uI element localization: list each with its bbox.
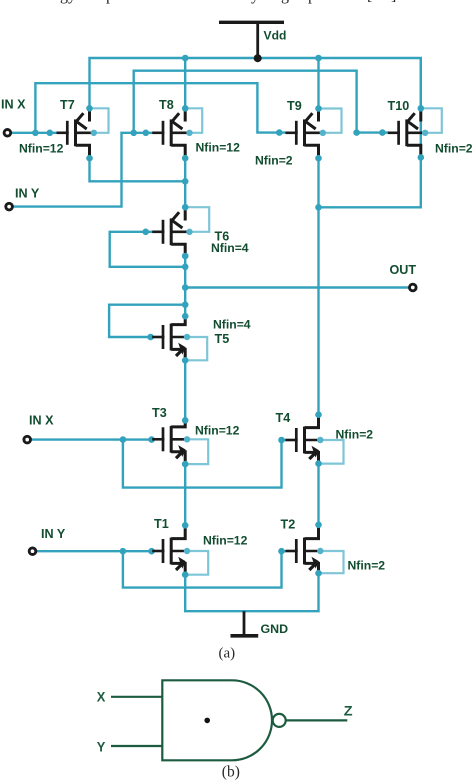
- svg-text:T9: T9: [287, 99, 302, 113]
- node T10 gate dot A: [353, 129, 360, 136]
- node Vdd-T8 junction: [182, 55, 189, 62]
- wire input X stub: [111, 696, 162, 698]
- wire output Z stub: [286, 719, 348, 721]
- wire T5 gate-drain loop: [109, 305, 185, 337]
- svg-text:T10: T10: [388, 99, 410, 113]
- svg-text:(b): (b): [222, 764, 240, 781]
- transistor T9: [319, 109, 342, 133]
- wire IN Y riser to T10 gate: [134, 71, 388, 133]
- node IN Y dot A: [120, 548, 127, 555]
- wire OUT: [185, 286, 409, 288]
- node T6 drain junction: [182, 264, 189, 271]
- node T6 diode junction: [142, 229, 149, 236]
- svg-text:Nfin=2: Nfin=2: [255, 154, 293, 168]
- wire IN X to T7 gate: [11, 132, 57, 134]
- wire IN Y to T8 gate: [13, 133, 153, 207]
- terminal IN X bottom: [24, 436, 31, 443]
- svg-text:Nfin=4: Nfin=4: [213, 318, 251, 332]
- wire T10 drain connector: [319, 158, 421, 207]
- node center dot: [204, 718, 210, 724]
- wire IN Y drop to T2 gate: [123, 551, 286, 587]
- svg-text:Y: Y: [97, 739, 106, 755]
- svg-text:T2: T2: [281, 518, 296, 532]
- svg-text:T7: T7: [60, 98, 75, 112]
- wire T4 to T2: [317, 464, 319, 525]
- node T2 gate dot: [278, 548, 285, 555]
- svg-text:Z: Z: [344, 703, 353, 719]
- node T8 gate dot A: [130, 130, 137, 137]
- wire T6 to T5 (OUT node): [184, 256, 186, 316]
- wire T7 drain to node: [90, 158, 186, 181]
- transistor T4: [319, 440, 344, 464]
- svg-text:Nfin=12: Nfin=12: [19, 142, 64, 156]
- node T7-T8 drain junction: [182, 178, 189, 185]
- wire T1 source to GND rail to T2 source: [185, 573, 318, 611]
- wire T6 gate-drain loop: [110, 232, 186, 267]
- svg-text:OUT: OUT: [390, 263, 417, 277]
- svg-text:Nfin=2: Nfin=2: [348, 559, 386, 573]
- wire IN X riser to T9 gate: [35, 83, 286, 133]
- node T5 diode junction B: [182, 301, 189, 308]
- wire T9 drain down to T4: [317, 158, 319, 415]
- transistor T7: [90, 108, 109, 133]
- node T7 gate dot B: [47, 130, 54, 137]
- terminal IN Y bottom: [29, 548, 36, 555]
- svg-text:IN Y: IN Y: [41, 527, 66, 541]
- node T10 gate dot B: [379, 129, 386, 136]
- svg-text:GND: GND: [261, 622, 289, 636]
- node IN X dot B: [148, 436, 155, 443]
- svg-text:IN X: IN X: [1, 98, 26, 112]
- ground GND symbol: [243, 611, 246, 634]
- svg-text:Vdd: Vdd: [264, 28, 287, 42]
- node OUT junction: [182, 284, 189, 291]
- wire T10 top stub: [420, 58, 422, 108]
- svg-text:T4: T4: [276, 411, 291, 425]
- svg-text:T1: T1: [154, 517, 169, 531]
- wire IN X drop to T4 gate: [123, 440, 286, 488]
- node T9 gate dot: [276, 129, 283, 136]
- node IN X dot A: [120, 436, 127, 443]
- node T7 gate dot A: [32, 130, 39, 137]
- wire IN X to T3 gate: [31, 438, 153, 440]
- svg-text:IN Y: IN Y: [15, 187, 40, 201]
- svg-text:IN X: IN X: [29, 414, 54, 428]
- wire Vdd drop to T9: [317, 58, 319, 108]
- wire IN Y to T1 gate: [36, 550, 152, 552]
- node T8 gate dot B: [143, 130, 150, 137]
- transistor T2: [319, 551, 344, 573]
- svg-text:T8: T8: [159, 98, 174, 112]
- svg-text:Nfin=4: Nfin=4: [211, 241, 249, 255]
- power Vdd symbol: [219, 21, 284, 24]
- wire T5 to T3: [184, 360, 186, 420]
- terminal IN Y top: [6, 203, 13, 210]
- transistor T3: [185, 439, 208, 464]
- svg-text:Nfin=12: Nfin=12: [195, 424, 240, 438]
- node T5 diode junction A: [147, 334, 154, 341]
- wire Vdd rail: [90, 58, 421, 157]
- terminal IN X top: [4, 130, 11, 137]
- wire input Y stub: [111, 745, 162, 747]
- nand gate inversion bubble: [273, 714, 286, 727]
- svg-text:T3: T3: [152, 406, 167, 420]
- node Vdd-T9 junction: [315, 55, 322, 62]
- svg-text:(a): (a): [219, 646, 236, 662]
- wire T8 drain down: [184, 158, 186, 207]
- transistor T8: [185, 108, 202, 133]
- node IN Y dot B: [148, 548, 155, 555]
- nand gate U1 body: [162, 680, 272, 760]
- wire Vdd drop to T8: [184, 58, 186, 108]
- node T9-T10 drain junction: [315, 204, 322, 211]
- node T4 gate dot: [278, 437, 285, 444]
- svg-text:X: X: [97, 689, 106, 705]
- svg-text:T5: T5: [215, 332, 230, 346]
- terminal OUT: [410, 284, 417, 291]
- cropped text line at very top: [0, 0, 474, 9]
- transistor T1: [185, 551, 208, 575]
- svg-text:Nfin=12: Nfin=12: [196, 141, 241, 155]
- transistor T6: [185, 207, 209, 232]
- transistor T5: [185, 337, 207, 360]
- svg-text:Nfin=12: Nfin=12: [203, 534, 248, 548]
- transistor T10: [421, 108, 442, 133]
- svg-text:Nfin=2: Nfin=2: [336, 428, 374, 442]
- svg-text:Nfin=2: Nfin=2: [435, 142, 473, 156]
- wire T3 to T1: [184, 464, 186, 525]
